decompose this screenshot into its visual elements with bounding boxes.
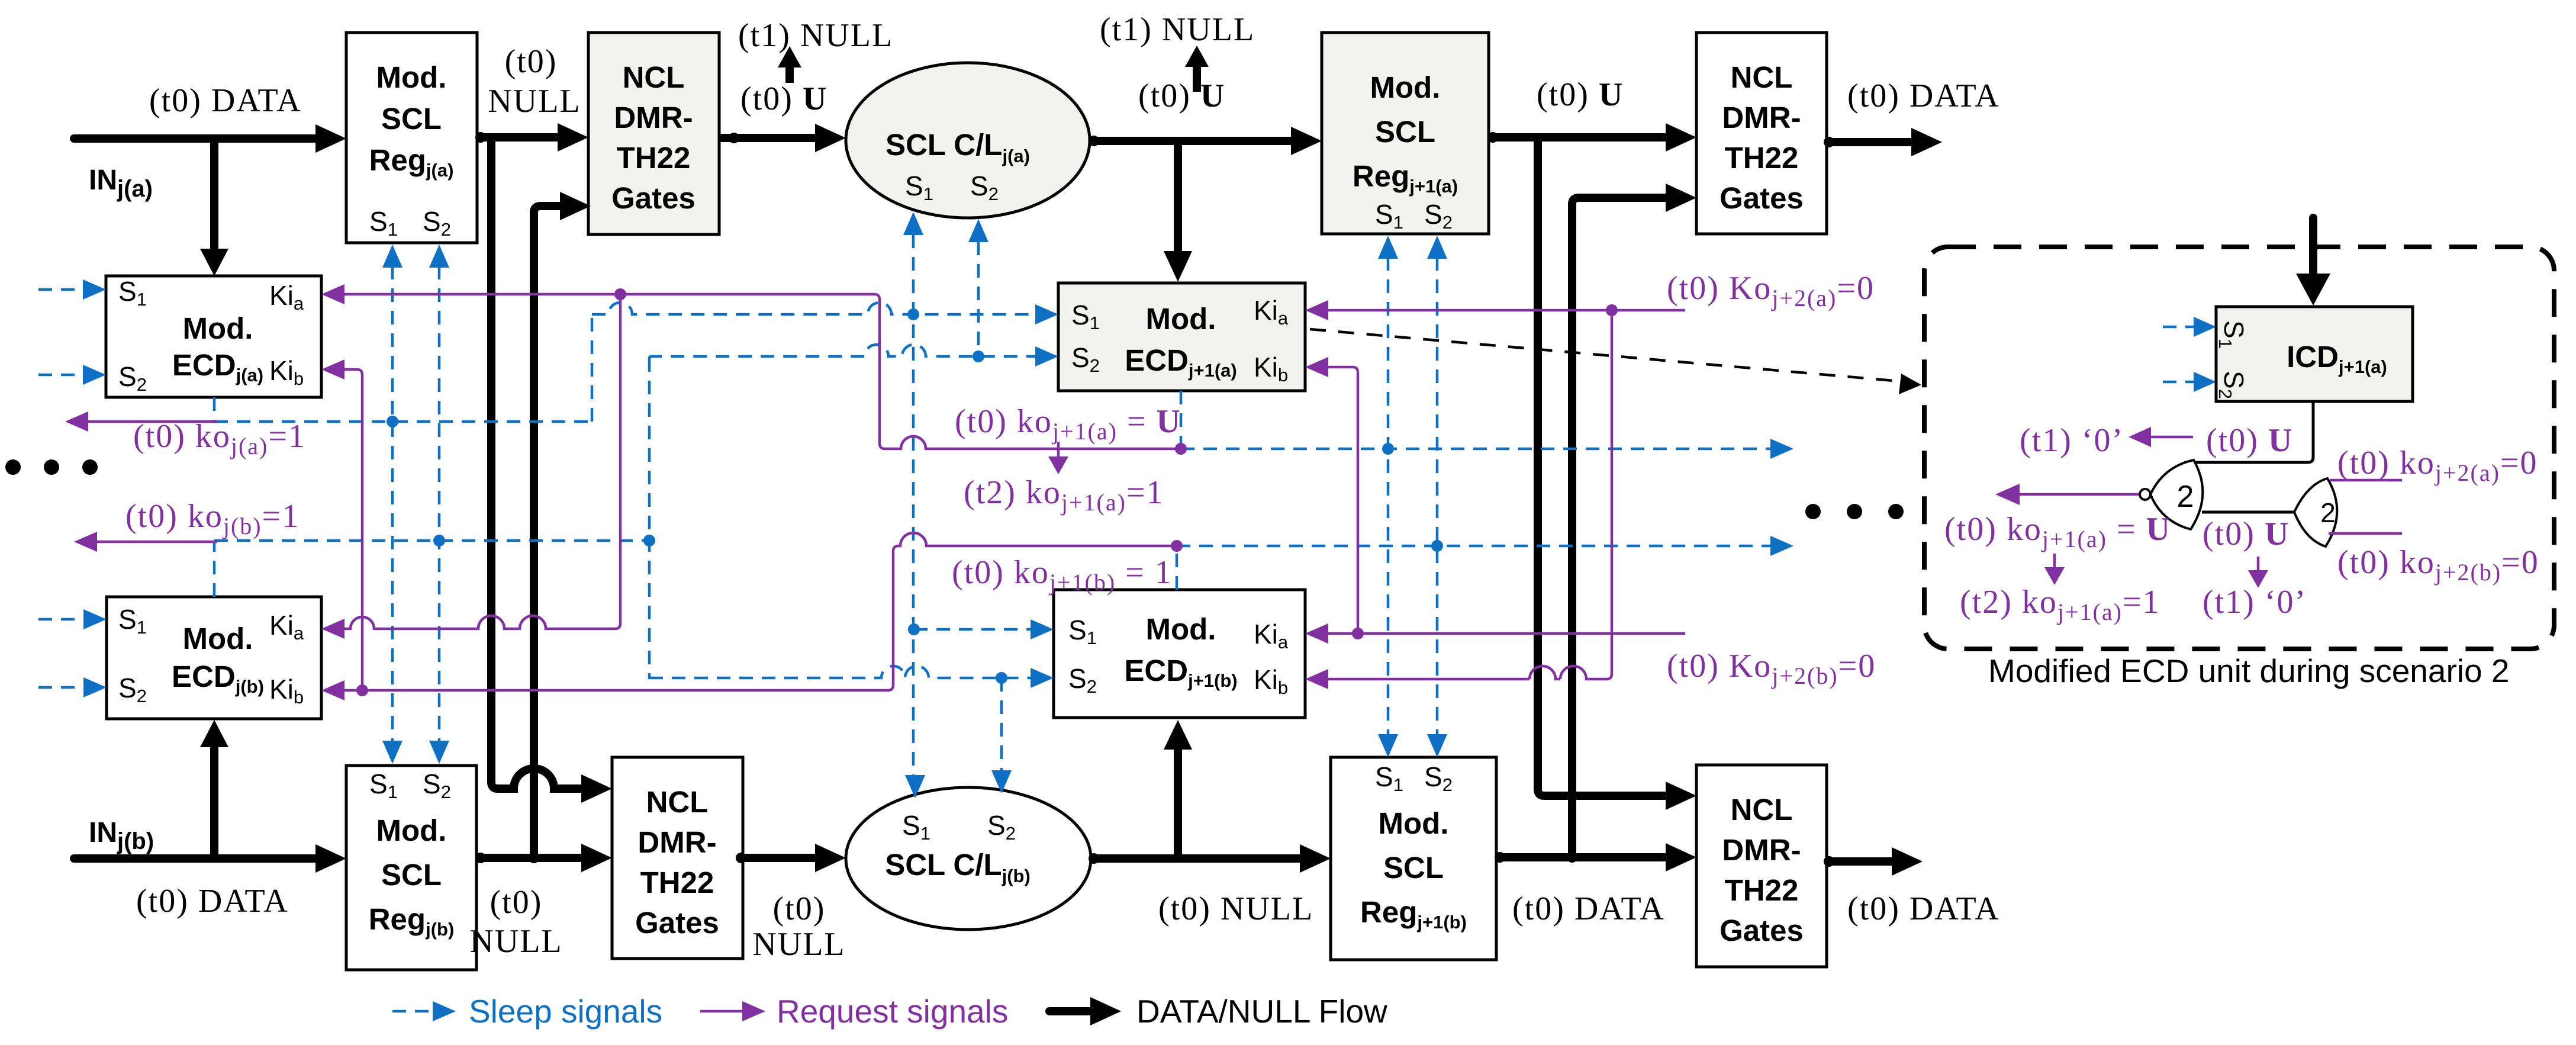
label ko_j(a)=1 — [133, 418, 306, 459]
request arrow ko_j(b)=1 to the left — [74, 532, 217, 552]
wire NCL_j(b) to SCL C/L_j(b) — [736, 844, 846, 872]
label (t0) NULL after Reg_j(b) — [469, 884, 562, 960]
request input ko_j+2(b) into OR gate — [2329, 532, 2402, 535]
svg-text:Mod.: Mod. — [1370, 70, 1441, 104]
request net ko_j+1(a): feed to Ki_a of ECD_j(a) and ECD_j(b) — [321, 284, 1187, 639]
dashed box label (t0) U bottom — [2203, 516, 2290, 552]
svg-text:DMR-: DMR- — [1722, 833, 1801, 867]
svg-text:(t1) NULL: (t1) NULL — [1100, 11, 1255, 48]
completion detector Mod. ECD_j+1(a) — [1058, 283, 1305, 391]
svg-text:(t0) U: (t0) U — [2203, 516, 2290, 552]
legend DATA/NULL flow — [1049, 993, 1387, 1030]
svg-text:Gates: Gates — [635, 906, 719, 940]
completion logic ellipse SCL C/L_j(b) — [846, 787, 1091, 930]
dashed box label (t1) '0' bottom — [2203, 584, 2307, 620]
svg-text:(t0) Koj+2(a)=0: (t0) Koj+2(a)=0 — [1667, 270, 1875, 311]
sleep wire ko_j(a) dashed run to corner x=994 — [214, 314, 592, 422]
svg-text:NCL: NCL — [623, 60, 685, 94]
svg-text:(t0) NULL: (t0) NULL — [1158, 890, 1313, 927]
svg-text:2: 2 — [2177, 480, 2194, 514]
sleep vertical x=1653 C/L_j(a) S2 — [968, 219, 988, 356]
svg-text:NULL: NULL — [752, 926, 845, 963]
svg-text:Request signals: Request signals — [777, 993, 1008, 1030]
label (t0) NULL after Reg_j(a) — [488, 43, 581, 120]
svg-text:SCL: SCL — [381, 102, 442, 136]
wire cross branch: top data down to NCL_j+1(b) input — [1538, 137, 1696, 810]
sleep wire y=1145 into ECD_j+1(b) S2 with hops — [649, 666, 1054, 688]
register Reg_j(b) — [346, 766, 476, 970]
wire OR gate output to NOR gate input — [2202, 511, 2295, 514]
ellipsis dots right — [1805, 504, 1904, 519]
ellipsis dots left — [5, 459, 98, 475]
wire ICD output to NOR gate — [2194, 401, 2313, 462]
svg-text:Mod.: Mod. — [376, 814, 447, 847]
purple down arrow under (t0)U middle — [2248, 557, 2268, 588]
sleep stub into ICD S1 — [2163, 317, 2216, 337]
svg-text:(t1) ‘0’: (t1) ‘0’ — [2203, 584, 2307, 620]
svg-text:DATA/NULL Flow: DATA/NULL Flow — [1136, 993, 1387, 1030]
label (t0) U third — [1537, 76, 1624, 113]
sleep wire y=531 into ECD_j+1(a) S1 with hop over x=1048 — [592, 303, 1058, 324]
svg-text:Mod.: Mod. — [183, 622, 253, 655]
svg-text:(t1) NULL: (t1) NULL — [738, 17, 893, 54]
sleep wire ko_j+1(a) dashed run right with arrow — [1181, 439, 1793, 459]
legend request signals — [700, 993, 1008, 1030]
label (t1) NULL first — [738, 17, 893, 54]
svg-text:NULL: NULL — [469, 923, 562, 960]
wire Reg_j+1(a) to NCL_j+1(a) — [1487, 123, 1696, 152]
wire Reg_j(a) to NCL_j(a) — [475, 123, 588, 152]
label (t0) DATA top left — [149, 82, 302, 119]
wire NCL_j+1(b) output (t0) DATA — [1824, 847, 1923, 876]
svg-text:Mod.: Mod. — [1379, 806, 1449, 840]
wire SCL C/L_j(a) to Reg_j+1(a) — [1089, 127, 1322, 155]
label ko_j+1(b)=1 — [952, 554, 1173, 596]
label (t0) DATA bottom mid — [1512, 890, 1665, 927]
wire SCL C/L_j(b) to Reg_j+1(b) — [1089, 844, 1331, 873]
sleep vertical x=2428 Reg_j+1(a) to Reg_j+1(b) — [1427, 236, 1447, 757]
sleep wire ko_j+1(b) dashed run right with arrow — [1177, 536, 1793, 556]
label Ko_j+2(b)=0 — [1667, 648, 1876, 689]
sleep wire ko_j(b) dashed run to corner x=1097 — [214, 535, 655, 546]
svg-text:(t0) koj(a)=1: (t0) koj(a)=1 — [133, 418, 306, 459]
sleep pin ECD_j(a) bottom to ko_j(a) node — [213, 397, 216, 422]
black dashed feedback arrow from Ki_a ECD_j+1(a) to dashed box — [1310, 329, 1921, 394]
dashed box label ko_j+2(b)=0 — [2337, 544, 2539, 586]
thick input arrow into ICD_j+1(a) — [2296, 218, 2330, 306]
svg-text:Mod.: Mod. — [183, 311, 253, 345]
sleep wire y=602 into ECD_j+1(a) S2 with hops — [649, 345, 1058, 366]
svg-text:Mod.: Mod. — [1146, 612, 1216, 646]
svg-text:2: 2 — [2320, 497, 2336, 528]
svg-text:NCL: NCL — [1731, 793, 1793, 827]
svg-text:(t0) DATA: (t0) DATA — [1847, 890, 2000, 927]
register Reg_j+1(a) — [1322, 33, 1489, 234]
wire NCL_j(a) to SCL C/L_j(a) — [719, 124, 846, 152]
register Reg_j+1(b) — [1331, 757, 1496, 960]
sleep vertical x=1543 C/L_j(a) to C/L_j(b) — [903, 212, 925, 798]
sleep stub into ICD S2 — [2163, 372, 2216, 392]
label (t0) NULL after C/L_j(b) — [1158, 890, 1313, 927]
svg-text:(t0): (t0) — [505, 43, 558, 80]
wire cross branch: bottom data up to NCL_j+1(a) input — [1567, 184, 1696, 863]
svg-text:(t0) koj(b)=1: (t0) koj(b)=1 — [125, 498, 300, 539]
svg-text:DMR-: DMR- — [637, 825, 716, 859]
wire NCL_j+1(a) output (t0) DATA — [1824, 128, 1942, 156]
arrow (t0)U to (t1)NULL after NCL_j(a) — [778, 46, 801, 83]
label ko_j+1(a)=U — [955, 403, 1181, 445]
sleep vertical S2 bus x=742 Reg_j(a) to Reg_j(b) — [429, 245, 449, 764]
request net Ko_j+2(a): to Ki_a ECD_j+1(a) and Ki_b ECD_j+1(b) — [1305, 300, 1685, 689]
NCL DMR-TH22 gates U_j(b) — [612, 757, 743, 959]
purple down arrow under ko_j+1(a)=U center diagram — [1048, 442, 1068, 474]
label (t1) NULL second — [1100, 11, 1255, 48]
purple arrow (t0)U to (t1)'0' top — [2129, 427, 2193, 447]
svg-text:TH22: TH22 — [640, 866, 714, 899]
svg-text:TH22: TH22 — [1725, 873, 1799, 907]
svg-text:Gates: Gates — [611, 181, 695, 215]
wire Reg_j(b) to NCL_j(b) — [475, 844, 612, 872]
dashed box label (t1) '0' top — [2020, 422, 2124, 459]
wire IN_j(b) branch up to ECD_j(b) — [200, 720, 228, 858]
NCL DMR-TH22 gates U_j+1(b) — [1696, 765, 1827, 967]
sleep pin ECD_j(b) top to ko_j(b) node — [213, 541, 216, 597]
sleep stub into ECD_j(b) S1 — [38, 609, 107, 629]
label (t2) ko_j+1(a)=1 — [964, 474, 1164, 516]
label ko_j(b)=1 — [125, 498, 300, 539]
wire IN_j(a) data line — [74, 124, 346, 153]
svg-text:(t0) U: (t0) U — [1537, 76, 1624, 113]
purple down arrow under ko_j+1(a)=U left — [2044, 554, 2065, 585]
svg-text:NCL: NCL — [646, 785, 709, 819]
svg-text:(t0) U: (t0) U — [740, 81, 827, 117]
wire cross branch: bottom data up to NCL_j(a) input — [529, 192, 591, 863]
svg-text:(t0) Koj+2(b)=0: (t0) Koj+2(b)=0 — [1667, 648, 1876, 689]
OR gate (2) right — [2294, 478, 2337, 546]
register Reg_j(a) — [346, 33, 477, 243]
request net ko_j+1(b): feed to Ki_b of ECD_j(a) and ECD_j(b) — [321, 359, 1183, 700]
svg-text:(t0) DATA: (t0) DATA — [1512, 890, 1665, 927]
svg-text:(t0) U: (t0) U — [2206, 422, 2293, 459]
wire branch down to ECD_j+1(a) — [1164, 141, 1192, 282]
svg-text:SCL: SCL — [1375, 115, 1435, 149]
svg-text:Modified ECD unit during scena: Modified ECD unit during scenario 2 — [1988, 652, 2509, 689]
dashed box label (t2) ko_j+1(a)=1 — [1960, 584, 2160, 625]
svg-text:Gates: Gates — [1720, 181, 1804, 215]
svg-text:Sleep signals: Sleep signals — [469, 993, 662, 1030]
svg-text:TH22: TH22 — [617, 141, 691, 175]
sleep vertical x=2345 Reg_j+1(a) to Reg_j+1(b) — [1378, 236, 1398, 757]
request net Ko_j+2(b): to Ki_b ECD_j+1(a) and Ki_a ECD_j+1(b) — [1305, 357, 1685, 644]
request input ko_j+2(a) into OR gate — [2330, 479, 2402, 482]
svg-text:SCL: SCL — [1383, 851, 1444, 885]
arrow (t0)U to (t1)NULL after SCL C/L_j(a) — [1185, 46, 1209, 92]
svg-text:NULL: NULL — [488, 83, 581, 120]
svg-text:(t0) DATA: (t0) DATA — [149, 82, 302, 119]
label IN_j(b) — [89, 817, 154, 854]
NCL DMR-TH22 gates U_j+1(a) — [1696, 33, 1827, 234]
wire cross branch: top data down to NCL_j(b) input — [491, 137, 612, 803]
svg-text:(t0) DATA: (t0) DATA — [1847, 78, 2000, 114]
completion detector Mod. ECD_j(b) — [107, 597, 321, 719]
label (t0) DATA bottom right — [1847, 890, 2000, 927]
sleep vertical S1 bus x=663 Reg_j(a) to Reg_j(b) — [382, 245, 402, 764]
sleep vertical x=1097 S2 feed — [648, 358, 651, 679]
label IN_j(a) — [89, 165, 153, 202]
dashed box caption — [1988, 652, 2509, 689]
NOR gate (2) with bubble output left — [2140, 460, 2203, 529]
sleep stub into ECD_j(a) S1 — [38, 279, 106, 300]
svg-text:SCL: SCL — [381, 858, 442, 892]
svg-text:Mod.: Mod. — [1146, 302, 1216, 336]
sleep pin ECD_j+1(b) top to ko_j+1(b) node — [1176, 546, 1178, 590]
wire branch up to ECD_j+1(b) — [1164, 720, 1192, 858]
svg-text:NCL: NCL — [1731, 60, 1793, 94]
sleep pin ECD_j+1(a) bottom to ko_j+1(a) node — [1180, 391, 1183, 449]
completion detector Mod. ECD_j+1(b) — [1054, 590, 1305, 718]
dashed box label ko_j+1(a)=U — [1944, 511, 2171, 552]
wire Reg_j+1(b) to NCL_j+1(b) — [1495, 843, 1696, 872]
sleep stub into ECD_j(b) S2 — [38, 677, 107, 697]
completion logic ellipse SCL C/L_j(a) — [846, 63, 1090, 218]
svg-text:DMR-: DMR- — [1722, 101, 1801, 134]
sleep wire y=1063 into ECD_j+1(b) S1 — [908, 619, 1054, 639]
legend sleep signals — [392, 993, 662, 1030]
svg-text:Mod.: Mod. — [376, 60, 447, 94]
label Ko_j+2(a)=0 — [1667, 270, 1875, 311]
svg-text:(t0): (t0) — [773, 890, 826, 927]
dashed box label (t0) U top — [2206, 422, 2293, 459]
svg-text:(t0): (t0) — [490, 884, 543, 921]
svg-text:(t0) U: (t0) U — [1138, 78, 1225, 114]
label (t0) DATA bottom left — [136, 883, 289, 919]
wire IN_j(b) data line — [74, 844, 346, 873]
label (t0) U second — [1138, 78, 1225, 114]
label (t0) U first — [740, 81, 827, 117]
svg-text:(t0) DATA: (t0) DATA — [136, 883, 289, 919]
label (t0) NULL after NCL_j(b) — [752, 890, 845, 963]
completion detector Mod. ECD_j(a) — [106, 276, 321, 397]
ICD_j+1(a) box — [2215, 307, 2413, 401]
svg-text:TH22: TH22 — [1725, 141, 1799, 175]
request output arrow from NOR bubble — [1995, 484, 2139, 505]
dashed container box Modified ECD unit — [1924, 247, 2554, 649]
sleep stub into ECD_j(a) S2 — [38, 365, 106, 385]
svg-text:DMR-: DMR- — [614, 101, 693, 134]
dashed box label ko_j+2(a)=0 — [2337, 445, 2538, 486]
wire IN_j(a) branch down to ECD_j(a) — [200, 139, 228, 276]
label (t0) DATA top right — [1847, 78, 2000, 114]
request arrow ko_j(a)=1 to the left — [65, 411, 217, 432]
sleep vertical x=1692 to C/L_j(b) S2 — [991, 678, 1012, 793]
svg-text:(t1) ‘0’: (t1) ‘0’ — [2020, 422, 2124, 459]
NCL DMR-TH22 gates U_j(a) — [588, 33, 719, 234]
svg-text:Gates: Gates — [1720, 914, 1804, 947]
